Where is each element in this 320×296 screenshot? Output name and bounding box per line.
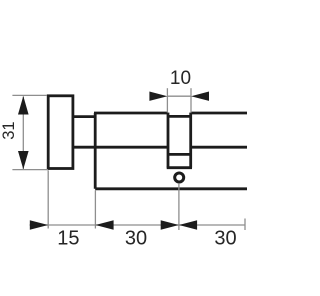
cam channel inner line	[168, 153, 191, 156]
cam channel recessed top line	[168, 115, 191, 118]
dim 10 left extension line	[166, 88, 168, 112]
cylinder body top edge right segment	[191, 112, 247, 115]
knob neck top line	[73, 115, 95, 118]
dim 10 dimension line	[167, 95, 191, 97]
svg-text:30: 30	[125, 228, 147, 250]
svg-text:30: 30	[214, 228, 236, 250]
dim 31 down arrow	[18, 151, 29, 169]
cylinder body left edge	[94, 113, 97, 189]
bottom arrow at E3 pointing right	[161, 220, 179, 229]
bottom dimension line	[30, 224, 246, 226]
cylinder body top edge left segment	[94, 112, 168, 115]
body bottom edge	[95, 187, 247, 190]
dim 10 right extension line	[190, 88, 192, 112]
cam channel left vertical	[167, 113, 170, 168]
dim 31 bottom extension line	[12, 169, 48, 171]
body middle line right of channel	[191, 146, 247, 149]
bottom extension line E1 under knob left edge	[47, 170, 49, 228]
bottom arrow at E3 pointing left	[179, 220, 197, 229]
body middle line left of channel (continues neck bottom)	[73, 146, 168, 149]
svg-text:10: 10	[170, 68, 191, 89]
dim 10 left arrow	[149, 92, 167, 101]
center extension line E3 below circle	[178, 183, 180, 230]
svg-text:15: 15	[57, 228, 79, 250]
bottom extension tick E4 at right	[244, 219, 246, 231]
thumbturn knob outline	[48, 96, 73, 169]
fixing screw hole circle	[175, 173, 184, 182]
bottom extension line E2 under body left edge	[94, 190, 96, 228]
bottom arrow at E2 pointing left	[95, 220, 113, 229]
dim 31 vertical dimension line	[22, 97, 24, 170]
bottom arrow at E1 pointing right	[30, 220, 48, 229]
dim 10 right arrow	[191, 92, 209, 101]
cam channel right vertical	[189, 113, 192, 168]
dim 31 top extension line	[12, 94, 47, 96]
dim 31 up arrow	[18, 96, 29, 115]
svg-text:31: 31	[0, 121, 18, 139]
cam channel bottom line	[167, 166, 192, 169]
